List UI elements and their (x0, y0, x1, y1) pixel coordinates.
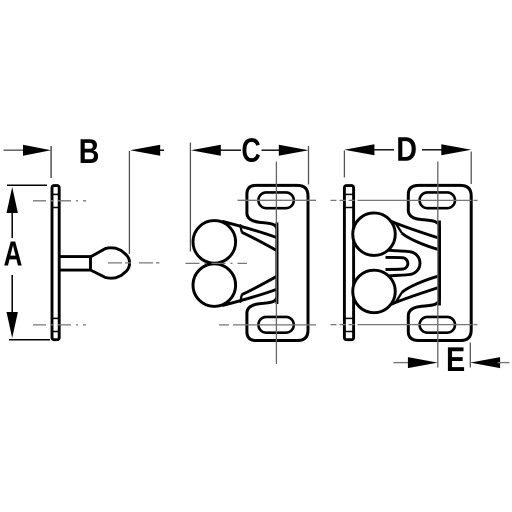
spring top strap outer edge (391, 221, 439, 238)
dimension D left extension line (343, 151, 345, 178)
lower roller (353, 270, 396, 313)
striker plate bottom slot lower tick (344, 331, 353, 333)
upper roller (353, 213, 396, 256)
right view bottom slot centerline (360, 324, 472, 326)
catch web edge (275, 223, 278, 305)
dimension D right tail (422, 149, 443, 151)
bottom hole centerline (33, 324, 86, 326)
catch body outline (408, 185, 471, 340)
stud arm bottom edge (60, 269, 92, 272)
dimension D left arrowhead (344, 144, 374, 155)
dimension A line lower segment (11, 275, 13, 314)
dimension C right tail (262, 149, 281, 151)
dimension E right extension line (469, 343, 471, 368)
spring tongue outer edge (388, 250, 420, 276)
dimension E right arrowhead (470, 357, 500, 368)
striker plate top slot upper tick (344, 193, 353, 195)
dimension A top arrowhead (7, 187, 18, 213)
middle view top slot centerline (238, 199, 317, 201)
striker plate top slot edge tick (52, 193, 59, 195)
dimension label D (398, 137, 416, 161)
striker plate (edge-on) (344, 186, 353, 340)
dimension C left arrowhead (191, 145, 221, 156)
dimension A bottom extension line (9, 339, 50, 341)
spring top strap outer edge (222, 221, 277, 237)
stud centerline (108, 262, 160, 264)
right view vertical centerline (437, 162, 439, 368)
dimension C left tail (219, 149, 241, 151)
dimension E left arrowhead (408, 357, 438, 368)
striker plate bottom slot lower tick (52, 331, 59, 333)
dimension D left tail (372, 149, 395, 151)
catch web edge (438, 221, 441, 306)
dimension C left extension line (189, 143, 191, 252)
right view top slot centerline (360, 199, 472, 201)
middle view vertical centerline (275, 162, 277, 365)
spring tongue inner edge (386, 257, 408, 269)
bottom mounting slot (258, 317, 293, 333)
dimension B right tail (157, 149, 164, 151)
dimension A top extension line (7, 184, 47, 186)
spring bottom strap inner edge (402, 276, 440, 293)
dimension C right extension line (308, 146, 310, 185)
top mounting slot (420, 192, 455, 208)
spring top strap end tick (240, 224, 242, 232)
dimension label B (81, 139, 98, 163)
spring bottom strap inner edge (242, 276, 277, 294)
catch body outline (247, 185, 308, 340)
striker plate bottom slot upper tick (344, 317, 353, 319)
striker plate top slot lower tick (344, 207, 353, 209)
dimension E left tail (394, 362, 410, 364)
dimension B left extension line (50, 146, 52, 178)
right view top slot centerline dashes (331, 199, 361, 201)
right view bottom slot centerline dashes (331, 324, 361, 326)
dimension C right arrowhead (279, 145, 309, 156)
middle view rollers centerline (186, 262, 248, 264)
spring bottom strap outer edge (222, 289, 277, 305)
top hole centerline (33, 200, 86, 202)
spring bottom strap end tick (396, 292, 402, 302)
middle view bottom slot centerline (219, 324, 229, 326)
lower roller (193, 264, 236, 307)
dimension A line upper segment (11, 212, 13, 238)
striker plate (edge-on) (52, 186, 59, 340)
spring top strap end tick (396, 223, 402, 233)
dimension A bottom arrowhead (7, 312, 18, 338)
spring top strap inner edge (402, 233, 440, 250)
stud knob (bulb) (91, 248, 130, 278)
dimension D right arrowhead (441, 144, 471, 155)
dimension B right extension line (128, 151, 130, 254)
dimension E right tail (498, 362, 510, 364)
bottom mounting slot (420, 317, 455, 333)
dimension D right extension line (470, 152, 472, 185)
dimension label E (448, 347, 464, 371)
dimension B left tail (4, 149, 27, 151)
spring bottom strap outer edge (391, 287, 439, 304)
spring top strap inner edge (242, 232, 277, 250)
striker plate top slot lower tick (52, 207, 59, 209)
dimension label C (242, 138, 260, 162)
striker plate bottom slot upper tick (52, 317, 59, 319)
upper roller (193, 221, 236, 264)
top mounting slot (258, 192, 293, 208)
dimension B left arrowhead (23, 145, 51, 156)
dimension B right arrowhead (130, 145, 160, 156)
dimension label A (4, 242, 22, 266)
stud arm top edge (60, 255, 92, 258)
spring bottom strap end tick (240, 294, 242, 302)
